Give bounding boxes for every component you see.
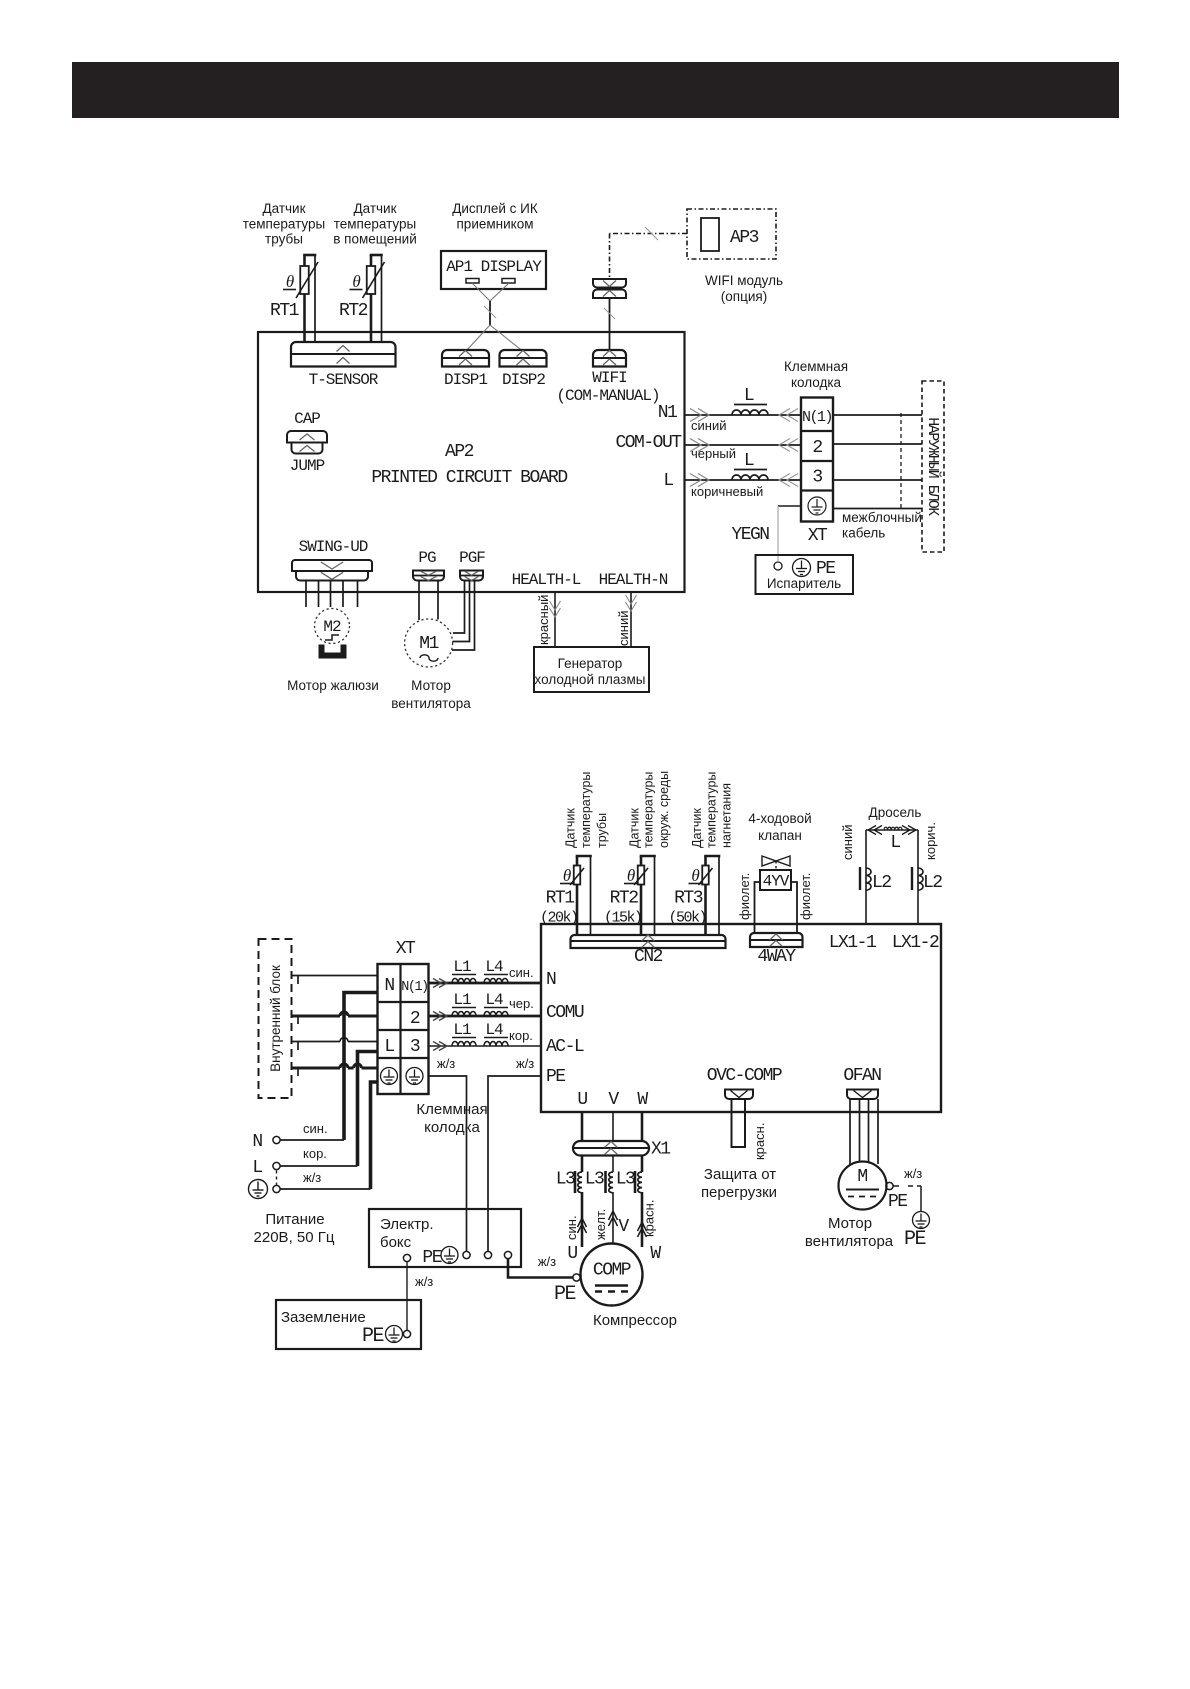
earth PE symbol <box>386 1326 403 1343</box>
svg-text:синий: синий <box>691 418 726 433</box>
svg-text:клапан: клапан <box>758 828 802 843</box>
inductor L on N1 wire <box>732 410 768 415</box>
svg-text:θ: θ <box>563 866 571 885</box>
arrow COM-OUT out <box>698 439 709 452</box>
wire fan to PE <box>893 1185 899 1187</box>
svg-text:RT1: RT1 <box>546 889 575 909</box>
svg-text:L1: L1 <box>453 991 471 1009</box>
svg-text:Испаритель: Испаритель <box>767 576 841 591</box>
inductor L1 row1 <box>452 979 476 984</box>
evaporator PE symbol <box>793 559 811 577</box>
fan motor inverter lines <box>846 1189 879 1191</box>
inductor L2 right <box>918 868 923 890</box>
motor M1 circle dotted <box>405 619 453 667</box>
svg-text:окруж. среды: окруж. среды <box>657 771 671 848</box>
svg-text:L4: L4 <box>485 991 503 1009</box>
wire terminal ground to outdoor <box>833 508 922 510</box>
wire W X1 to coil <box>641 1156 644 1173</box>
svg-text:LX1-2: LX1-2 <box>892 933 939 953</box>
inductor L1 row2 <box>452 1012 476 1016</box>
choke plug wire with arrows <box>866 829 918 831</box>
power terminal N circle <box>273 1136 280 1143</box>
svg-text:AC-L: AC-L <box>546 1037 584 1057</box>
arrow W up <box>638 1222 647 1231</box>
arrow COM-OUT in <box>779 439 790 452</box>
inductor L1 row3 <box>452 1042 476 1047</box>
wire XT row3 to board <box>429 1045 542 1047</box>
sensor RT1 lead wires <box>576 856 579 866</box>
electric box <box>369 1209 521 1267</box>
wire AP1 to DISP crossing <box>472 283 490 301</box>
wire V to X1 <box>612 1112 614 1141</box>
svg-text:L: L <box>252 1158 262 1178</box>
connector OFAN <box>847 1090 878 1100</box>
svg-text:Клеммная: Клеммная <box>416 1101 487 1118</box>
svg-text:температуры: температуры <box>243 217 326 232</box>
arrow N1 out <box>698 409 709 422</box>
sensor RT2 lead wires <box>370 255 373 266</box>
svg-text:L: L <box>744 451 754 471</box>
svg-text:ж/з: ж/з <box>303 1170 321 1185</box>
svg-text:XT: XT <box>396 939 416 959</box>
wire XT row1 to board <box>429 982 542 985</box>
wire indoor 4 thick <box>292 1067 341 1070</box>
connector PGF <box>460 571 483 581</box>
svg-text:CN2: CN2 <box>634 947 663 967</box>
svg-text:желт.: желт. <box>593 1209 608 1240</box>
svg-text:PE: PE <box>554 1283 576 1306</box>
arrow HEALTH-N down <box>626 602 637 611</box>
AP1 pin 1 <box>466 279 479 284</box>
svg-text:L3: L3 <box>616 1170 635 1190</box>
wire COM-OUT to terminal <box>685 444 802 446</box>
wire break slash on WIFI wire <box>604 308 615 319</box>
svg-text:SWING-UD: SWING-UD <box>299 538 368 556</box>
svg-text:кабель: кабель <box>842 526 885 541</box>
thermistor RT3 <box>702 866 709 885</box>
wire U to X1 <box>581 1112 584 1141</box>
svg-text:трубы: трубы <box>265 232 303 247</box>
wire 4YV right <box>791 882 797 933</box>
svg-text:HEALTH-N: HEALTH-N <box>599 571 668 589</box>
wire XT row2 to board <box>429 1015 542 1018</box>
connector DISP2 <box>500 350 547 367</box>
svg-text:RT1: RT1 <box>270 301 299 321</box>
power ground symbol <box>249 1180 268 1199</box>
svg-text:WIFI модуль: WIFI модуль <box>705 273 783 288</box>
svg-text:M2: M2 <box>323 618 341 636</box>
svg-text:Электр.: Электр. <box>380 1216 434 1233</box>
svg-text:коричневый: коричневый <box>691 484 763 499</box>
connector CAP-JUMP <box>287 431 327 443</box>
outdoor PCB outline <box>541 924 941 1112</box>
svg-text:DISP2: DISP2 <box>502 371 545 389</box>
svg-text:L: L <box>384 1037 394 1057</box>
svg-text:N(1): N(1) <box>802 409 832 426</box>
svg-text:2: 2 <box>812 438 822 458</box>
wifi module box AP3 dashed <box>687 209 776 259</box>
wire terminal3 to outdoor <box>833 479 922 481</box>
svg-text:Внутренний блок: Внутренний блок <box>268 965 283 1072</box>
inductor L3 phase W <box>638 1172 642 1193</box>
svg-text:L3: L3 <box>556 1170 575 1190</box>
svg-text:Дросель: Дросель <box>869 805 922 820</box>
XT row dividers <box>801 430 833 432</box>
power wire PE thick <box>371 1082 378 1189</box>
elbox PE symbol <box>441 1247 458 1264</box>
fan PE ground symbol <box>913 1212 930 1229</box>
svg-text:колодка: колодка <box>791 375 842 390</box>
earthing box Заземление <box>276 1300 421 1349</box>
AP1 pin 2 <box>502 279 515 284</box>
wire elbox to earth <box>406 1262 408 1331</box>
connector WIFI <box>593 350 626 367</box>
wires OFAN to motor <box>849 1099 851 1164</box>
M1 wave symbol <box>420 655 438 661</box>
svg-text:перегрузки: перегрузки <box>701 1184 777 1201</box>
evaporator box <box>756 555 854 594</box>
svg-text:Мотор: Мотор <box>411 678 451 693</box>
elbox terminal 2 <box>463 1251 470 1258</box>
svg-text:температуры: температуры <box>642 772 656 848</box>
svg-text:COM-OUT: COM-OUT <box>615 433 682 453</box>
svg-text:синий: синий <box>840 825 855 860</box>
svg-text:N: N <box>384 976 394 996</box>
svg-text:M: M <box>857 1167 867 1187</box>
svg-text:температуры: температуры <box>579 772 593 848</box>
svg-text:N(1): N(1) <box>401 980 427 995</box>
svg-text:ж/з: ж/з <box>415 1274 433 1289</box>
arrow V up <box>609 1211 618 1220</box>
svg-text:L: L <box>663 471 673 491</box>
4YV valve bowtie symbol <box>762 856 776 866</box>
AP3 inner module rect <box>701 218 719 251</box>
arrow U up <box>578 1218 587 1227</box>
svg-text:син.: син. <box>303 1121 328 1136</box>
svg-text:LX1-1: LX1-1 <box>829 933 876 953</box>
evaporator wire terminal circle <box>774 562 782 570</box>
header black bar <box>72 62 1119 118</box>
power dashed link <box>276 1171 278 1186</box>
svg-text:ж/з: ж/з <box>538 1254 556 1269</box>
svg-text:WIFI: WIFI <box>592 369 627 387</box>
svg-text:X1: X1 <box>651 1140 670 1160</box>
solenoid 4YV box <box>760 870 791 890</box>
inductor L3 phase V <box>609 1172 613 1193</box>
svg-text:син.: син. <box>509 965 534 980</box>
svg-text:кор.: кор. <box>303 1146 327 1161</box>
compressor PE terminal circle <box>573 1274 580 1281</box>
connector SWING-UD <box>292 560 372 571</box>
svg-text:красный: красный <box>536 595 551 645</box>
svg-text:ж/з: ж/з <box>516 1056 534 1071</box>
wire choke left to LX1-1 <box>865 830 867 924</box>
svg-text:N: N <box>546 970 556 990</box>
svg-text:Мотор: Мотор <box>828 1215 872 1232</box>
fan PE terminal circle <box>886 1182 893 1189</box>
svg-text:PE: PE <box>888 1192 907 1212</box>
svg-text:3: 3 <box>812 468 822 488</box>
XT bottom row dividers <box>378 1001 429 1003</box>
svg-text:COMU: COMU <box>546 1003 584 1023</box>
compressor inverter lines <box>595 1284 628 1286</box>
svg-text:(опция): (опция) <box>721 289 767 304</box>
svg-text:AP2: AP2 <box>445 442 474 462</box>
connector PG <box>413 571 444 581</box>
XT bottom column divider <box>399 964 401 1094</box>
connector X1 stadium <box>573 1141 649 1156</box>
connector 4WAY <box>750 933 803 947</box>
svg-text:(15k): (15k) <box>604 910 642 927</box>
svg-text:Защита от: Защита от <box>704 1166 776 1183</box>
connector CN2 <box>571 935 726 948</box>
inductor L4 row3 <box>484 1042 508 1047</box>
svg-text:черный: черный <box>691 446 736 461</box>
arrow out row3 <box>439 1042 447 1051</box>
svg-text:красн.: красн. <box>752 1123 767 1160</box>
svg-text:2: 2 <box>410 1009 420 1029</box>
fan motor circle <box>839 1162 887 1210</box>
svg-text:220В, 50 Гц: 220В, 50 Гц <box>254 1229 335 1246</box>
svg-text:T-SENSOR: T-SENSOR <box>309 371 379 389</box>
arrow L out <box>698 474 709 487</box>
wire terminal1 to outdoor <box>833 414 922 416</box>
wire N1 to terminal <box>685 414 802 416</box>
svg-text:(50k): (50k) <box>668 910 706 927</box>
M2 step symbol <box>325 635 339 640</box>
svg-text:кор.: кор. <box>509 1028 533 1043</box>
svg-text:YEGN: YEGN <box>731 525 769 545</box>
AP2 printed circuit board outline <box>258 332 685 592</box>
svg-text:U: U <box>577 1090 587 1110</box>
terminal block XT top outline <box>801 398 833 522</box>
svg-text:фиолет.: фиолет. <box>737 873 752 920</box>
svg-text:PGF: PGF <box>459 549 485 567</box>
wire AP3 to WIFI dash-dot <box>610 233 688 235</box>
svg-text:(20k): (20k) <box>540 910 578 927</box>
arrow out row1 <box>439 979 447 988</box>
svg-text:RT3: RT3 <box>674 889 703 909</box>
wire HEALTH-N to plasma <box>630 593 632 647</box>
inductor L4 row1 <box>484 979 508 984</box>
svg-text:чер.: чер. <box>509 996 534 1011</box>
svg-text:син.: син. <box>564 1215 579 1240</box>
svg-text:L: L <box>890 833 900 853</box>
wire L to terminal <box>685 479 802 481</box>
louvre bracket icon <box>319 645 346 658</box>
connector WIFI plug upper <box>593 279 626 288</box>
wire indoor 1 <box>292 975 378 977</box>
svg-text:θ: θ <box>691 866 699 885</box>
power wire N thick <box>344 993 377 1141</box>
svg-text:ж/з: ж/з <box>437 1056 455 1071</box>
svg-text:бокс: бокс <box>380 1234 412 1251</box>
svg-text:HEALTH-L: HEALTH-L <box>512 571 581 589</box>
svg-text:JUMP: JUMP <box>290 457 325 475</box>
sensor RT3 lead wires <box>704 856 707 866</box>
svg-text:L4: L4 <box>485 958 503 976</box>
connector DISP1 <box>442 350 489 367</box>
connector T-SENSOR <box>291 342 396 367</box>
svg-text:PE: PE <box>362 1325 384 1348</box>
svg-text:PG: PG <box>418 549 436 567</box>
power terminal L circle <box>273 1162 280 1169</box>
svg-text:OVC-COMP: OVC-COMP <box>707 1066 782 1086</box>
thermistor RT2 <box>367 266 376 294</box>
svg-text:PE: PE <box>422 1248 441 1268</box>
inductor L3 phase U <box>578 1172 582 1193</box>
elbox terminal 1 <box>403 1254 410 1261</box>
terminal block XT bottom outline <box>378 964 429 1094</box>
svg-text:нагнетания: нагнетания <box>720 783 734 848</box>
svg-text:Датчик: Датчик <box>564 808 578 848</box>
arrow out row2 <box>439 1012 447 1021</box>
elbox terminal 3 <box>484 1251 491 1258</box>
svg-text:синий: синий <box>616 611 631 646</box>
sensor RT2 lead wires <box>640 856 643 866</box>
svg-text:L1: L1 <box>453 1021 471 1039</box>
svg-text:колодка: колодка <box>424 1119 480 1136</box>
wires PGF to M1 <box>453 581 465 634</box>
svg-text:ж/з: ж/з <box>904 1166 922 1181</box>
motor M2 circle dotted <box>315 609 350 644</box>
svg-text:холодной плазмы: холодной плазмы <box>535 672 646 687</box>
svg-text:красн.: красн. <box>642 1200 657 1237</box>
svg-text:Датчик: Датчик <box>353 201 396 216</box>
wire W to X1 <box>641 1112 644 1141</box>
svg-text:M1: M1 <box>419 634 438 654</box>
arrow N1 in <box>779 409 790 422</box>
wires PG to M1 <box>418 581 420 621</box>
power terminal PE circle <box>273 1185 280 1192</box>
connector WIFI plug lower <box>593 290 626 299</box>
plasma generator box <box>534 647 649 692</box>
elbox terminal 4 <box>504 1251 511 1258</box>
display box AP1 <box>441 251 546 289</box>
wire indoor 3 <box>292 1041 341 1043</box>
svg-text:L: L <box>744 386 754 406</box>
arrow HEALTH-L down <box>550 608 561 617</box>
thermistor RT1 <box>300 266 309 294</box>
svg-text:N1: N1 <box>658 403 677 423</box>
wire U X1 to coil <box>581 1156 584 1173</box>
wire break slash on AP3 wire <box>645 227 658 240</box>
overload protector tube <box>732 1099 746 1147</box>
svg-text:U: U <box>567 1244 577 1264</box>
svg-text:PE: PE <box>904 1228 926 1251</box>
svg-text:температуры: температуры <box>705 772 719 848</box>
svg-text:фиолет.: фиолет. <box>798 873 813 920</box>
svg-text:COMP: COMP <box>593 1261 631 1281</box>
svg-text:L4: L4 <box>485 1021 503 1039</box>
wire 4YV left <box>755 882 761 933</box>
svg-text:трубы: трубы <box>595 813 609 848</box>
indoor unit dashed box <box>259 939 292 1098</box>
wire V X1 to coil <box>612 1156 614 1173</box>
svg-text:Дисплей с ИК: Дисплей с ИК <box>452 201 538 216</box>
svg-text:N: N <box>252 1132 262 1152</box>
svg-text:Клеммная: Клеммная <box>784 359 848 374</box>
svg-text:Генератор: Генератор <box>558 656 623 671</box>
wire WIFI plug to board <box>609 298 611 350</box>
svg-text:Датчик: Датчик <box>628 808 642 848</box>
svg-text:Заземление: Заземление <box>281 1309 366 1326</box>
svg-text:межблочный: межблочный <box>842 510 922 525</box>
svg-text:θ: θ <box>627 866 635 885</box>
svg-text:XT: XT <box>808 526 828 546</box>
svg-text:L2: L2 <box>923 873 942 893</box>
earth terminal circle <box>403 1330 410 1337</box>
svg-text:вентилятора: вентилятора <box>391 696 471 711</box>
svg-text:PE: PE <box>546 1067 565 1087</box>
inductor L2 left <box>866 868 871 890</box>
svg-text:DISP1: DISP1 <box>444 371 487 389</box>
sensor RT1 lead wires <box>303 255 306 266</box>
outdoor unit dashed box <box>922 381 944 552</box>
svg-text:приемником: приемником <box>457 217 534 232</box>
wires SWING-UD to M2 ribbon <box>305 581 307 608</box>
svg-text:температуры: температуры <box>334 217 417 232</box>
svg-text:OFAN: OFAN <box>843 1066 881 1086</box>
wire XT ground to evaporator <box>778 505 801 507</box>
connector OVC-COMP <box>725 1090 753 1100</box>
svg-text:CAP: CAP <box>294 410 320 428</box>
svg-text:AP3: AP3 <box>730 228 759 248</box>
svg-text:4-ходовой: 4-ходовой <box>748 811 811 826</box>
svg-text:θ: θ <box>352 272 360 291</box>
wire XT ground to elbox <box>429 1076 467 1251</box>
svg-text:Компрессор: Компрессор <box>593 1312 677 1329</box>
wire terminal2 to outdoor <box>833 443 922 445</box>
inductor L on L wire <box>732 475 768 480</box>
XT ground symbol left <box>381 1068 398 1085</box>
svg-text:в помещений: в помещений <box>333 232 417 247</box>
svg-text:4WAY: 4WAY <box>757 947 796 967</box>
interconnect cable dashed marker <box>900 413 902 509</box>
svg-text:(COM-MANUAL): (COM-MANUAL) <box>556 387 659 405</box>
compressor circle <box>581 1244 643 1306</box>
terminal ground symbol <box>808 497 826 515</box>
svg-text:RT2: RT2 <box>610 889 639 909</box>
wire HEALTH-L to plasma <box>554 593 556 647</box>
thermistor RT2 <box>638 866 645 885</box>
svg-text:θ: θ <box>286 272 294 291</box>
svg-text:4YV: 4YV <box>763 873 790 891</box>
XT ground symbol right <box>406 1068 423 1085</box>
svg-text:3: 3 <box>410 1037 420 1057</box>
svg-text:Питание: Питание <box>265 1211 324 1228</box>
svg-text:RT2: RT2 <box>339 301 368 321</box>
svg-text:Мотор жалюзи: Мотор жалюзи <box>287 678 379 693</box>
svg-text:корич.: корич. <box>923 822 938 860</box>
svg-text:Датчик: Датчик <box>262 201 305 216</box>
svg-text:AP1 DISPLAY: AP1 DISPLAY <box>446 258 542 276</box>
power wire L thick <box>358 1052 378 1167</box>
svg-text:PRINTED CIRCUIT BOARD: PRINTED CIRCUIT BOARD <box>371 468 567 488</box>
wire indoor 2 thick <box>292 1015 341 1018</box>
thermistor RT1 <box>574 866 581 885</box>
arrow L in <box>779 474 790 487</box>
svg-text:L3: L3 <box>585 1170 604 1190</box>
wire elbox to compressor PE <box>508 1259 573 1278</box>
inductor L4 row2 <box>484 1012 508 1016</box>
svg-text:L2: L2 <box>872 873 891 893</box>
wire board PE to elbox <box>488 1076 541 1251</box>
svg-text:Датчик: Датчик <box>690 808 704 848</box>
wire choke right to LX1-2 <box>917 830 919 924</box>
svg-text:НАРУЖНЫЙ БЛОК: НАРУЖНЫЙ БЛОК <box>924 417 941 516</box>
svg-text:вентилятора: вентилятора <box>805 1233 894 1250</box>
